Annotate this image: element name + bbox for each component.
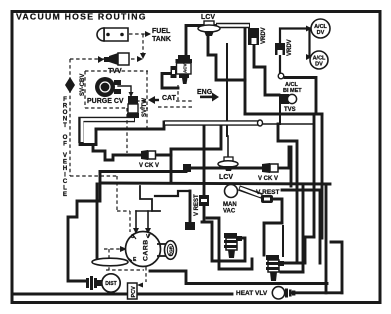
svg-text:HEAT VLV: HEAT VLV <box>236 290 268 297</box>
svg-text:PCV: PCV <box>131 286 137 298</box>
svg-text:VRDV: VRDV <box>287 39 293 56</box>
svg-text:LCV: LCV <box>219 174 233 181</box>
svg-text:DV: DV <box>315 62 323 68</box>
svg-text:E: E <box>63 191 67 198</box>
svg-text:V REST: V REST <box>194 194 200 216</box>
svg-text:FUEL: FUEL <box>152 28 171 35</box>
svg-text:VRDV: VRDV <box>261 27 267 44</box>
svg-text:F: F <box>63 141 67 148</box>
svg-text:LCV: LCV <box>201 14 215 21</box>
svg-text:EGR: EGR <box>169 245 174 256</box>
svg-text:BI MET: BI MET <box>283 88 302 94</box>
svg-text:TVS: TVS <box>284 107 296 113</box>
svg-text:TVV: TVV <box>108 68 122 75</box>
svg-text:V CK V: V CK V <box>258 176 278 182</box>
svg-text:T: T <box>63 122 67 129</box>
svg-text:TANK: TANK <box>152 36 171 43</box>
svg-text:DIST: DIST <box>105 281 116 287</box>
svg-text:V CK V: V CK V <box>139 163 159 169</box>
svg-text:PURGE CV: PURGE CV <box>87 98 124 105</box>
svg-text:SV-TW: SV-TW <box>142 98 148 117</box>
svg-text:DV: DV <box>317 30 325 36</box>
svg-text:MAN: MAN <box>223 202 237 208</box>
svg-text:CARB: CARB <box>143 239 150 261</box>
svg-text:VACUUM HOSE ROUTING: VACUUM HOSE ROUTING <box>16 12 147 22</box>
svg-text:ACV: ACV <box>183 63 188 73</box>
svg-text:SV-CBV: SV-CBV <box>80 74 86 96</box>
svg-text:CAT: CAT <box>162 95 177 102</box>
svg-text:VAC: VAC <box>223 209 236 215</box>
svg-text:ENG: ENG <box>197 89 213 96</box>
svg-text:V REST: V REST <box>256 189 280 196</box>
